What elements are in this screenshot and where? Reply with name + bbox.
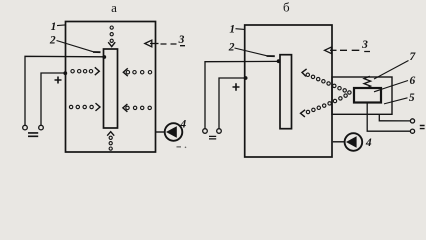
dc source sign a — [28, 133, 38, 136]
leader 2 b — [235, 48, 267, 56]
svg-text:б: б — [283, 0, 290, 14]
cathode target a — [104, 49, 118, 128]
substrate 6 — [354, 88, 381, 103]
node anode junction a — [63, 71, 67, 75]
leader 6 — [374, 81, 408, 92]
leader 7 — [374, 61, 409, 80]
svg-text:3: 3 — [178, 34, 185, 46]
print artifact a — [177, 146, 182, 148]
svg-text:4: 4 — [179, 119, 186, 131]
dc source sign b — [209, 136, 216, 139]
pump port b — [333, 141, 345, 143]
terminal lower right b — [410, 129, 414, 133]
leader 1 b — [236, 28, 245, 31]
sputtered atoms trail upper b — [302, 69, 351, 94]
vacuum chamber (anode) a — [66, 22, 156, 153]
terminal left a — [23, 125, 28, 130]
wire positive lead a — [41, 73, 65, 125]
plus sign b — [233, 83, 240, 90]
node anode junction b — [244, 76, 248, 80]
svg-text:4: 4 — [365, 137, 372, 149]
substrate holder box 5 — [332, 77, 392, 114]
vacuum chamber (anode) b — [245, 25, 332, 157]
paper background — [0, 0, 426, 169]
dc source sign right b — [420, 126, 425, 129]
ion trail left row2 a — [69, 103, 100, 111]
terminal right b — [217, 129, 222, 134]
svg-text:2: 2 — [49, 34, 56, 46]
svg-text:1: 1 — [229, 24, 235, 36]
ion trail top a — [108, 26, 115, 47]
wire negative lead a — [25, 56, 104, 125]
terminal right a — [39, 125, 44, 130]
svg-text:1: 1 — [51, 21, 57, 33]
pump symbol a — [165, 123, 183, 141]
gas inlet arrow b — [325, 47, 371, 54]
ion trail right row1 a — [123, 68, 151, 76]
svg-text:6: 6 — [410, 75, 416, 87]
heater zigzag 7 — [364, 76, 371, 88]
wire substrate to terminal b — [367, 103, 410, 131]
ion trail right row2 a — [123, 104, 151, 112]
terminal upper right b — [410, 119, 414, 123]
ion trail left row1 a — [71, 67, 99, 75]
leader 2 a — [57, 41, 94, 52]
svg-text:3: 3 — [361, 39, 368, 51]
terminal left b — [203, 129, 208, 134]
wire holder to terminal b — [379, 114, 410, 121]
wire positive lead b — [219, 78, 245, 129]
svg-text:2: 2 — [228, 41, 235, 53]
pump symbol b — [345, 133, 363, 151]
svg-text:а: а — [111, 0, 117, 15]
leader 1 a — [57, 24, 65, 27]
ion trail bottom a — [107, 132, 114, 151]
svg-text:5: 5 — [409, 92, 415, 104]
gas inlet arrow a — [145, 40, 185, 47]
leader 2 end dash b — [267, 55, 275, 57]
leader 2 end dash a — [93, 51, 101, 53]
node cathode junction b — [277, 59, 281, 63]
leader 5 — [384, 98, 408, 104]
pump port a — [156, 131, 165, 133]
sputtered atoms trail lower b — [301, 94, 348, 117]
node cathode junction a — [102, 55, 106, 59]
plus sign a — [55, 77, 62, 84]
cathode target b — [280, 55, 292, 129]
wire negative lead b — [205, 61, 279, 128]
